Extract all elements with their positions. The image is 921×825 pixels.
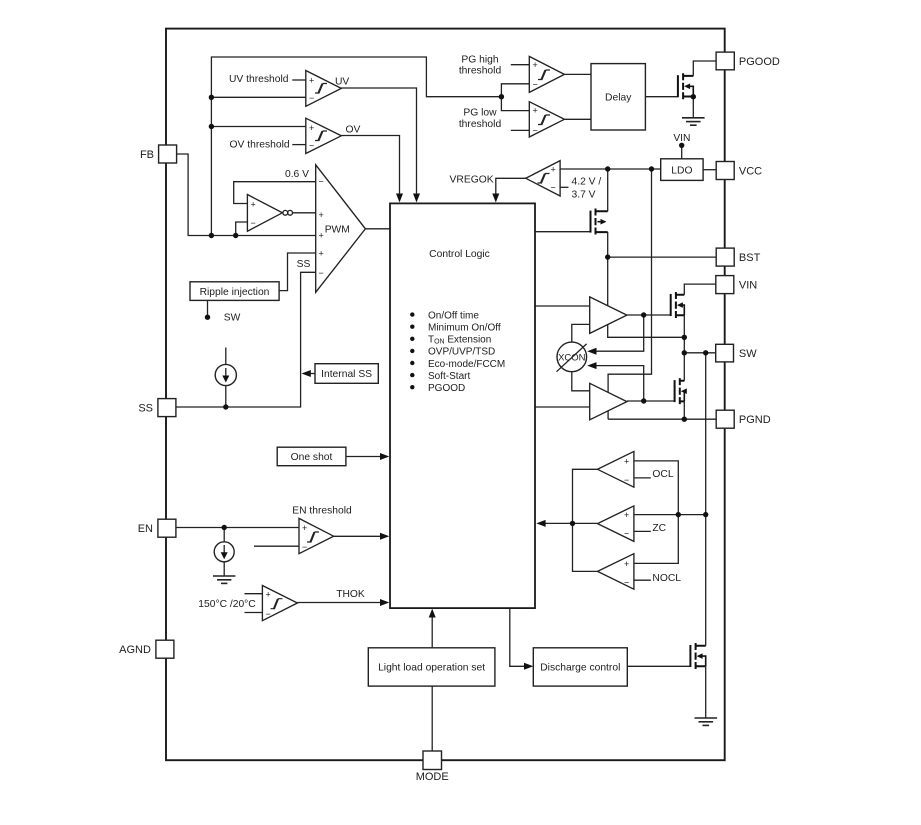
svg-text:Soft-Start: Soft-Start [428, 371, 470, 382]
svg-text:+: + [319, 210, 324, 220]
svg-text:LDO: LDO [671, 165, 692, 176]
svg-text:4.2 V /: 4.2 V / [572, 176, 602, 187]
box Discharge control [533, 648, 627, 686]
comparator thermal [262, 586, 297, 621]
svg-text:XCON: XCON [558, 352, 586, 363]
wire: THOK output arrow into Control Logic [297, 599, 389, 606]
wire: VREGOK minus stub [560, 186, 568, 188]
label EN threshold [292, 506, 352, 517]
pin SS [138, 399, 176, 417]
wire: OV output to Control Logic (arrow down) [341, 136, 403, 203]
svg-text:SW: SW [739, 348, 757, 360]
svg-text:PGOOD: PGOOD [428, 383, 465, 394]
current source I2 (EN) [214, 542, 234, 562]
svg-text:3.7 V: 3.7 V [572, 190, 596, 201]
comparator NOCL (left facing) [598, 554, 634, 590]
svg-text:−: − [309, 93, 314, 103]
svg-text:MODE: MODE [416, 771, 449, 783]
label ZC [652, 523, 666, 534]
svg-text:PWM: PWM [325, 225, 350, 236]
wire: high-side driver output to gate [627, 314, 671, 316]
svg-text:PGND: PGND [739, 414, 771, 426]
pin FB [140, 145, 177, 163]
comparator ZC (left facing) [598, 506, 634, 542]
ground G3 (discharge FET) [695, 718, 718, 725]
svg-text:−: − [309, 141, 314, 151]
label PG high threshold [459, 54, 502, 76]
svg-text:VIN: VIN [739, 279, 757, 291]
wire: VREGOK output arrow into Control Logic top [492, 178, 526, 202]
pin PGOOD [716, 52, 780, 70]
svg-text:threshold: threshold [459, 119, 502, 130]
svg-text:−: − [533, 126, 538, 136]
svg-text:+: + [251, 199, 256, 209]
svg-text:150°C /20°C: 150°C /20°C [198, 599, 256, 610]
pin BST [716, 248, 760, 266]
svg-text:SS: SS [138, 402, 153, 414]
svg-text:AGND: AGND [119, 644, 151, 656]
svg-text:THOK: THOK [336, 589, 365, 600]
label UV threshold [229, 74, 289, 85]
wire: PG high output to Delay [564, 73, 591, 75]
svg-text:VIN: VIN [673, 133, 690, 144]
svg-text:NOCL: NOCL [652, 573, 681, 584]
box Delay [591, 64, 645, 130]
wire: low-side source to PGND row [683, 401, 685, 419]
wire: SW sense trunk down to discharge FET drain [705, 353, 707, 646]
svg-text:OV threshold: OV threshold [230, 140, 290, 151]
svg-text:OV: OV [346, 124, 361, 135]
pin MODE [416, 751, 449, 783]
label NOCL [652, 573, 681, 584]
label THOK [336, 589, 365, 600]
buffer driver high-side [590, 297, 627, 334]
wire: BST row to BST pin [608, 256, 717, 258]
svg-text:FB: FB [140, 149, 154, 161]
wire: OCL minus stub [634, 477, 651, 479]
wire: PG low output to Delay [564, 118, 591, 120]
wire: SS current source branch [225, 348, 227, 408]
wire: high-side source / SW / low-side drain vertical [683, 315, 685, 381]
wire: ripple injection SW stub [207, 300, 209, 316]
error amp A1 [247, 195, 292, 232]
wire: EN comparator minus stub [254, 545, 299, 547]
svg-text:VREGOK: VREGOK [450, 174, 494, 185]
pin PGND [716, 410, 771, 428]
wire: LDO output to VCC pin [703, 169, 716, 171]
current source I1 (SS) [215, 364, 236, 385]
wire: OCL/ZC/NOCL plus-input sense net [634, 461, 706, 564]
wire: VCC net from VREGOK comparator to LDO [560, 168, 661, 170]
svg-text:−: − [302, 542, 307, 552]
svg-text:Light load operation set: Light load operation set [378, 663, 485, 674]
comparator OV [306, 118, 361, 153]
wire: Discharge control output to discharge FET gate [627, 665, 690, 667]
svg-text:On/Off time: On/Off time [428, 310, 479, 321]
comparator PG high [529, 56, 564, 92]
wire: PWM comparator output to Control Logic [365, 228, 390, 230]
label 0.6 V [285, 169, 309, 180]
wire: comparator output trunk with arrow into Control Logic [536, 469, 597, 571]
svg-text:−: − [624, 577, 629, 587]
wire: error amp output to PWM comparator [293, 212, 316, 214]
wire: Internal SS arrow to SS line [302, 370, 316, 377]
label 4.2V/3.7V [572, 176, 602, 200]
label 150C/20C [198, 599, 256, 610]
svg-text:OCL: OCL [652, 469, 673, 480]
svg-text:+: + [624, 510, 629, 520]
svg-text:+: + [319, 249, 324, 259]
wire: PG comparators input splitter [501, 65, 529, 131]
wire: VIN stub above LDO [681, 145, 683, 159]
label PG low threshold [459, 108, 502, 130]
comparator UV [306, 71, 350, 107]
transistor M4 (PGOOD open drain) [678, 73, 693, 99]
wire: Delay output to PGOOD MOSFET gate [645, 96, 678, 98]
transistor M2 (high-side power FET) [671, 292, 685, 318]
transistor M5 (discharge FET) [690, 643, 705, 669]
wire: UV comparator minus input [211, 96, 305, 98]
svg-text:Delay: Delay [605, 92, 632, 103]
svg-text:Eco-mode/FCCM: Eco-mode/FCCM [428, 359, 505, 370]
wire: EN current source branch and ground lead [223, 528, 225, 576]
svg-text:−: − [319, 268, 324, 278]
svg-text:EN threshold: EN threshold [292, 506, 352, 517]
label OCL [652, 469, 673, 480]
comparator PWM (main) [316, 165, 366, 292]
box Light load operation set [368, 648, 495, 686]
svg-text:0.6 V: 0.6 V [285, 169, 309, 180]
comparator EN [299, 518, 334, 553]
pin VIN [716, 276, 757, 294]
svg-text:VCC: VCC [739, 165, 762, 177]
wire: PGND row to PGND pin [608, 418, 716, 420]
box Control Logic [390, 203, 535, 608]
wire: VCC to bootstrap switch drain [607, 169, 609, 211]
pin SW [716, 344, 758, 362]
wire: high-side gate sense arrow into XCON [587, 315, 644, 355]
wire: ZC minus stub [634, 530, 651, 532]
svg-text:PGOOD: PGOOD [739, 56, 780, 68]
svg-text:SW: SW [224, 313, 241, 324]
IC outer border [166, 29, 725, 761]
svg-text:UV: UV [335, 77, 349, 88]
svg-text:One shot: One shot [291, 452, 333, 463]
svg-text:Minimum On/Off: Minimum On/Off [428, 323, 501, 334]
label VREGOK [450, 174, 494, 185]
svg-text:PG low: PG low [463, 108, 497, 119]
svg-text:OVP/UVP/TSD: OVP/UVP/TSD [428, 347, 495, 358]
comparator PG low [529, 102, 564, 137]
wire: high-side FET drain to VIN pin [684, 284, 716, 295]
wire: UV output to Control Logic (arrow down) [341, 88, 420, 203]
box Ripple injection [190, 282, 279, 301]
wire: bootstrap switch gate from Control Logic [535, 231, 591, 233]
svg-text:−: − [251, 218, 256, 228]
transistor M3 (low-side power FET) [675, 378, 687, 404]
XCON block [557, 342, 587, 372]
wire: Light load operation set arrow up into Control Logic [429, 609, 436, 648]
node SW (ripple injection) [205, 313, 241, 324]
wire: thermal comparator input stubs [245, 594, 263, 613]
comparator OCL (left facing) [598, 451, 634, 487]
svg-text:+: + [533, 106, 538, 116]
svg-text:Discharge control: Discharge control [540, 663, 620, 674]
pin AGND [119, 640, 174, 658]
wire: PGOOD FET source to ground [692, 97, 694, 118]
wire: EN pin row to EN comparator [176, 527, 299, 529]
wire: One shot arrow into Control Logic [346, 453, 389, 460]
svg-text:+: + [266, 590, 271, 600]
wire: bootstrap switch source down to BST node and SW tie [608, 232, 685, 337]
ground G1 (PGOOD FET) [682, 118, 705, 125]
transistor M1 (bootstrap switch) [591, 209, 608, 235]
label OV threshold [230, 140, 290, 151]
wire: low-side gate sense arrow into XCON [587, 362, 644, 401]
svg-text:−: − [551, 183, 556, 193]
wire: MODE pin to Light load operation set [431, 686, 433, 751]
wire: OV comparator plus input [211, 126, 305, 128]
wire: ripple injection to PWM comparator [279, 253, 316, 291]
svg-text:+: + [624, 559, 629, 569]
svg-text:+: + [309, 123, 314, 133]
node VIN (above LDO) [673, 133, 690, 148]
wire: Control Logic to high-side driver input [535, 305, 590, 307]
wire: feedback trunk from FB to UV/OV/PG comparators (top loop y=57) [211, 57, 501, 236]
svg-text:+: + [319, 230, 324, 240]
wire: Control Logic to low-side driver input [535, 406, 590, 408]
buffer driver low-side [590, 383, 627, 420]
svg-text:Internal SS: Internal SS [321, 369, 372, 380]
box LDO [661, 159, 703, 181]
wire: Control Logic bottom to Discharge control arrow [510, 608, 534, 670]
svg-text:−: − [319, 176, 324, 186]
svg-text:EN: EN [138, 523, 153, 535]
svg-text:PG high: PG high [461, 54, 498, 65]
box One shot [277, 447, 346, 466]
pin VCC [716, 162, 762, 180]
svg-text:+: + [624, 456, 629, 466]
pin EN [138, 519, 176, 537]
wire: XCON to high-side driver [572, 324, 590, 342]
svg-text:+: + [309, 75, 314, 85]
ground G2 (EN current source) [213, 576, 235, 583]
list control logic functions [410, 310, 505, 394]
wire: EN comparator output arrow into Control Logic [334, 533, 390, 540]
svg-text:Control Logic: Control Logic [429, 249, 490, 260]
svg-text:UV threshold: UV threshold [229, 74, 289, 85]
svg-text:−: − [624, 475, 629, 485]
wire: SW row to SW pin [684, 352, 715, 354]
wire: SS pin row and to PWM comparator minus [176, 272, 316, 407]
comparator VREGOK (left facing) [526, 161, 560, 196]
svg-text:ZC: ZC [652, 523, 666, 534]
wire: discharge FET source to ground [705, 666, 707, 717]
svg-text:−: − [266, 609, 271, 619]
svg-text:−: − [533, 80, 538, 90]
wire: NOCL minus stub [634, 579, 651, 581]
svg-text:−: − [624, 529, 629, 539]
wire: PGOOD FET drain to PGOOD pin [693, 61, 716, 76]
svg-text:+: + [533, 60, 538, 70]
svg-text:+: + [302, 523, 307, 533]
wire: UV threshold stub [292, 79, 306, 81]
wire: XCON to low-side driver [572, 372, 590, 391]
wire: FB pin to PWM comparator input row [177, 154, 316, 236]
wire: low-side driver output to gate [627, 400, 675, 402]
wire: OV threshold stub [292, 144, 306, 146]
wire: LDO rail down to PGND row [608, 169, 651, 419]
box Internal SS [315, 364, 378, 384]
svg-text:threshold: threshold [459, 66, 502, 77]
svg-text:Ripple injection: Ripple injection [200, 287, 270, 298]
wire: error amp minus input from FB row [236, 222, 248, 236]
svg-text:BST: BST [739, 252, 761, 264]
svg-text:SS: SS [297, 259, 311, 270]
wire: 0.6V reference to PWM comp and error amp [234, 182, 316, 204]
label SS (PWM input) [297, 259, 311, 270]
svg-text:+: + [551, 165, 556, 175]
